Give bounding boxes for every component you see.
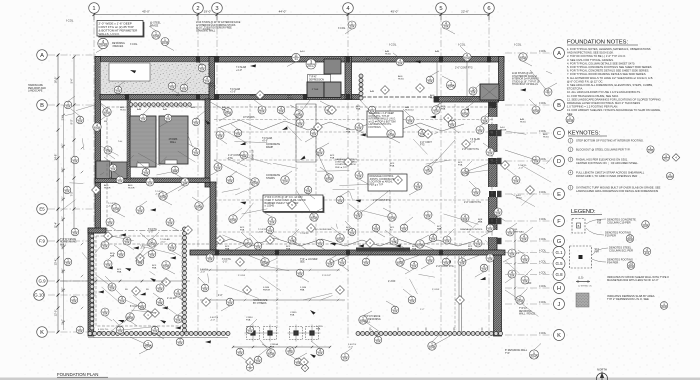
svg-text:204: 204 bbox=[65, 189, 70, 193]
svg-text:16'-0": 16'-0" bbox=[54, 77, 58, 84]
svg-text:2045: 2045 bbox=[667, 175, 673, 179]
svg-text:HOLD: HOLD bbox=[398, 79, 404, 81]
svg-text:204: 204 bbox=[350, 231, 355, 235]
svg-text:204: 204 bbox=[170, 85, 175, 89]
vertical column grid lines 1-6 bbox=[94, 15, 489, 340]
svg-text:FBA: FBA bbox=[117, 271, 122, 274]
svg-text:204: 204 bbox=[279, 109, 284, 113]
centerline COL labels right bbox=[539, 49, 547, 335]
stair treads west bbox=[131, 120, 155, 160]
svg-text:2045: 2045 bbox=[149, 243, 156, 247]
svg-text:A4B: A4B bbox=[520, 118, 525, 121]
svg-text:2045: 2045 bbox=[337, 238, 344, 242]
svg-text:ETC/ETCRA.: ETC/ETCRA. bbox=[567, 87, 583, 91]
svg-text:ℓ COL: ℓ COL bbox=[539, 270, 547, 274]
svg-text:G.8: G.8 bbox=[555, 272, 563, 277]
svg-text:HOLD14: HOLD14 bbox=[405, 110, 414, 112]
svg-text:-2'-0": -2'-0" bbox=[348, 347, 353, 349]
svg-text:204: 204 bbox=[150, 253, 155, 257]
svg-text:204: 204 bbox=[78, 329, 83, 333]
svg-text:+0'-0": +0'-0" bbox=[160, 242, 166, 244]
svg-text:8. ALL EXTERIOR WALLS TO HAVE: 8. ALL EXTERIOR WALLS TO HAVE 1/2" SHEAT… bbox=[567, 76, 653, 80]
left vertical dimension strings bbox=[57, 54, 76, 334]
svg-text:ℓ COL: ℓ COL bbox=[539, 101, 547, 105]
boxed note top-left perimeter footing bbox=[97, 21, 144, 38]
svg-text:2'-0" CONT FTG: 2'-0" CONT FTG bbox=[455, 67, 473, 70]
svg-text:204: 204 bbox=[431, 237, 436, 241]
svg-text:-1'-0": -1'-0" bbox=[518, 168, 523, 170]
svg-text:F: F bbox=[557, 219, 561, 225]
svg-text:C19: C19 bbox=[597, 220, 602, 222]
svg-text:4. FOR TYPICAL COLUMN DETAILS: 4. FOR TYPICAL COLUMN DETAILS SEE SHEET … bbox=[567, 61, 635, 65]
svg-text:45'-0": 45'-0" bbox=[142, 10, 150, 14]
svg-text:HOUR: HOUR bbox=[104, 188, 111, 190]
bubble leader lines bbox=[68, 26, 557, 361]
svg-text:FBA: FBA bbox=[225, 248, 230, 251]
interior wall horiz row B bbox=[100, 95, 362, 100]
svg-text:204: 204 bbox=[318, 242, 323, 246]
svg-text:204: 204 bbox=[268, 229, 273, 233]
svg-text:204: 204 bbox=[158, 287, 163, 291]
svg-text:FBA: FBA bbox=[441, 108, 446, 111]
svg-text:204: 204 bbox=[205, 79, 210, 83]
svg-text:204: 204 bbox=[110, 286, 115, 290]
svg-text:6: 6 bbox=[487, 6, 490, 12]
svg-text:AUS: AUS bbox=[210, 82, 215, 85]
svg-text:2046: 2046 bbox=[99, 44, 107, 48]
svg-text:TYP ▲ LOUVER: TYP ▲ LOUVER bbox=[300, 258, 318, 261]
svg-text:204: 204 bbox=[178, 341, 183, 345]
svg-text:2x10 STUDS @ 24": 2x10 STUDS @ 24" bbox=[512, 73, 533, 75]
svg-text:204: 204 bbox=[514, 179, 519, 183]
svg-text:NORTH: NORTH bbox=[597, 368, 607, 372]
svg-text:K: K bbox=[557, 333, 561, 339]
svg-text:204: 204 bbox=[125, 240, 130, 244]
svg-text:KEYNOTES:: KEYNOTES: bbox=[568, 131, 600, 137]
svg-text:2045: 2045 bbox=[533, 109, 540, 113]
svg-text:LANDSCAPED ARCH DRAWINGS FOR D: LANDSCAPED ARCH DRAWINGS FOR DETAIL AND … bbox=[576, 189, 658, 193]
svg-text:204: 204 bbox=[158, 301, 163, 305]
svg-text:NO RETAINING: NO RETAINING bbox=[60, 241, 77, 244]
svg-text:ℓ COL: ℓ COL bbox=[539, 248, 547, 252]
svg-text:F.9: F.9 bbox=[39, 239, 45, 244]
svg-text:B: B bbox=[578, 224, 580, 228]
svg-text:+1'-0": +1'-0" bbox=[470, 142, 476, 144]
svg-text:204: 204 bbox=[508, 231, 513, 235]
svg-text:-2'-0": -2'-0" bbox=[258, 232, 263, 234]
svg-text:19'-0": 19'-0" bbox=[204, 10, 212, 14]
grid bubbles 1-6 top row bbox=[89, 3, 495, 14]
svg-text:H: H bbox=[557, 286, 561, 292]
pier footing P2 bbox=[262, 325, 279, 342]
svg-text:TYP AT: TYP AT bbox=[519, 307, 527, 310]
svg-text:204: 204 bbox=[73, 231, 78, 235]
svg-text:HOLD: HOLD bbox=[120, 110, 126, 112]
svg-text:2: 2 bbox=[196, 6, 199, 12]
svg-text:FROM GRID 1 TO GRID 3 OVER OPE: FROM GRID 1 TO GRID 3 OVER OPENINGS PER bbox=[576, 174, 637, 178]
svg-text:E: E bbox=[557, 192, 561, 198]
zigzag leader chain above south wall bbox=[210, 238, 478, 247]
svg-text:5. FOR TYPICAL CONCRETE FOOTI: 5. FOR TYPICAL CONCRETE FOOTINGS SEE SHE… bbox=[567, 65, 652, 69]
svg-text:12'-0": 12'-0" bbox=[54, 310, 58, 317]
svg-text:204: 204 bbox=[228, 179, 233, 183]
svg-text:204: 204 bbox=[343, 356, 348, 360]
svg-text:204: 204 bbox=[166, 117, 171, 121]
svg-text:2045: 2045 bbox=[162, 41, 169, 45]
hardscape dimension lines bbox=[200, 62, 516, 301]
svg-text:204: 204 bbox=[445, 239, 450, 243]
svg-text:204: 204 bbox=[170, 246, 175, 250]
svg-text:204: 204 bbox=[645, 251, 650, 255]
svg-text:RAMP UP: RAMP UP bbox=[252, 149, 255, 160]
svg-text:204: 204 bbox=[66, 261, 71, 265]
svg-text:HOLD: HOLD bbox=[348, 98, 354, 100]
svg-text:2045: 2045 bbox=[262, 262, 269, 266]
svg-text:FOOTINGS: FOOTINGS bbox=[369, 127, 382, 129]
pier footing P3 bbox=[288, 325, 305, 342]
svg-text:204: 204 bbox=[474, 191, 479, 195]
svg-text:@ 6" OC AND F.N. @ 12" OC.: @ 6" OC AND F.N. @ 12" OC. bbox=[567, 79, 603, 83]
svg-text:204: 204 bbox=[444, 261, 449, 265]
svg-text:2'-3 DF: 2'-3 DF bbox=[432, 289, 440, 291]
svg-text:-2'-0": -2'-0" bbox=[200, 272, 205, 274]
svg-text:1'-2": 1'-2" bbox=[420, 309, 425, 311]
svg-text:45'-0": 45'-0" bbox=[391, 10, 399, 14]
svg-text:LANDSCAPE: LANDSCAPE bbox=[28, 90, 43, 93]
svg-text:204: 204 bbox=[176, 292, 181, 296]
svg-text:34: 34 bbox=[294, 57, 298, 61]
svg-text:2045: 2045 bbox=[648, 149, 654, 153]
svg-text:AT STAIRS: AT STAIRS bbox=[243, 116, 255, 119]
callout bubbles (circles) bbox=[64, 21, 552, 366]
svg-text:ℓ COL: ℓ COL bbox=[130, 42, 138, 46]
svg-text:DRAINAGE CONTROL: DRAINAGE CONTROL bbox=[460, 228, 484, 231]
svg-text:E5: E5 bbox=[39, 207, 45, 212]
svg-text:2' THK: 2' THK bbox=[312, 89, 319, 91]
svg-text:2045: 2045 bbox=[447, 85, 454, 89]
svg-text:2'-0" CONT FTG: 2'-0" CONT FTG bbox=[464, 202, 481, 204]
cont footing dashed outline main hall bbox=[107, 107, 492, 244]
svg-text:3. SEE CIVIL FOR TYPICAL GRAD: 3. SEE CIVIL FOR TYPICAL GRADES. bbox=[567, 58, 614, 62]
centerline COL labels top bbox=[66, 19, 522, 47]
svg-text:FBA: FBA bbox=[412, 248, 417, 251]
svg-text:FOUNDATION NOTES:: FOUNDATION NOTES: bbox=[567, 40, 628, 46]
svg-text:204: 204 bbox=[523, 279, 528, 283]
svg-text:7.0 SLAB: 7.0 SLAB bbox=[470, 138, 480, 141]
svg-text:204: 204 bbox=[523, 258, 528, 262]
south wall main mass row G1 bbox=[190, 250, 505, 255]
bottom scan strip bbox=[0, 378, 700, 380]
svg-text:204: 204 bbox=[357, 126, 362, 130]
svg-text:WALL: WALL bbox=[60, 243, 67, 246]
svg-text:204: 204 bbox=[72, 299, 77, 303]
svg-text:204: 204 bbox=[141, 117, 146, 121]
dark depression block east bbox=[324, 82, 341, 98]
wing top boundary dash-dot bbox=[106, 230, 190, 232]
svg-text:204: 204 bbox=[496, 211, 501, 215]
grid bubbles left column bbox=[34, 50, 48, 338]
svg-text:204: 204 bbox=[433, 110, 438, 114]
svg-text:FBA: FBA bbox=[468, 248, 473, 251]
svg-text:FSA: FSA bbox=[246, 319, 251, 322]
svg-text:1: 1 bbox=[92, 6, 95, 12]
svg-text:ℓ COL: ℓ COL bbox=[539, 331, 547, 335]
wing west wall bead overlay bbox=[90, 234, 94, 330]
svg-text:T.O.FTG: T.O.FTG bbox=[148, 229, 157, 231]
svg-text:2. TOP OF FOOTING TO BE (-) 1: 2. TOP OF FOOTING TO BE (-) 1'-0" TYP U.… bbox=[567, 54, 626, 58]
svg-text:FB/UM: FB/UM bbox=[263, 290, 270, 292]
svg-text:A4B: A4B bbox=[435, 50, 440, 53]
interior wall vert x210 lower bbox=[210, 182, 216, 250]
svg-text:2045: 2045 bbox=[94, 127, 101, 131]
svg-text:T.O.SLAB: T.O.SLAB bbox=[230, 88, 241, 91]
elevator inner marks bbox=[482, 86, 497, 98]
svg-text:2'-0" CONT FTG: 2'-0" CONT FTG bbox=[462, 149, 479, 151]
svg-text:TYP AT: TYP AT bbox=[309, 76, 317, 79]
stair shaft room west bbox=[130, 116, 156, 167]
exterior wall right upper bbox=[499, 57, 505, 101]
svg-text:204: 204 bbox=[482, 267, 487, 271]
svg-text:-1'-0": -1'-0" bbox=[222, 262, 228, 264]
svg-text:ℓ COL: ℓ COL bbox=[539, 49, 547, 53]
svg-text:INTERIOR 2x4 FURRING: INTERIOR 2x4 FURRING bbox=[512, 79, 539, 81]
svg-text:FSA: FSA bbox=[290, 314, 295, 317]
svg-text:TYP: TYP bbox=[505, 353, 510, 355]
svg-text:3: 3 bbox=[215, 6, 218, 12]
svg-text:STEP BOTTOM OF FOOTING AT INTE: STEP BOTTOM OF FOOTING AT INTERIOR FOOTI… bbox=[576, 139, 644, 143]
interior wall vert grid4 bbox=[345, 57, 352, 100]
svg-text:/ BRACES: / BRACES bbox=[112, 45, 124, 48]
svg-text:SIM: SIM bbox=[98, 332, 102, 334]
keynotes panel bbox=[568, 131, 680, 194]
svg-text:204: 204 bbox=[510, 273, 515, 277]
landing rect west bbox=[137, 163, 149, 167]
stipple planting band upper-left bbox=[101, 62, 211, 101]
svg-text:204: 204 bbox=[108, 221, 113, 225]
svg-text:2'-11 1/2": 2'-11 1/2" bbox=[167, 298, 177, 300]
svg-text:8' 9 1/2": 8' 9 1/2" bbox=[130, 306, 138, 308]
svg-text:B: B bbox=[40, 103, 44, 109]
svg-text:2045: 2045 bbox=[628, 265, 635, 269]
svg-text:SEE: SEE bbox=[300, 262, 305, 264]
svg-text:FOUNDATION PLAN: FOUNDATION PLAN bbox=[57, 372, 98, 377]
retaining wall beaded east bbox=[356, 332, 503, 336]
svg-text:G: G bbox=[557, 239, 562, 245]
svg-text:A4B: A4B bbox=[370, 90, 375, 93]
svg-text:204: 204 bbox=[248, 329, 253, 333]
retaining wall tick marks east bbox=[370, 328, 482, 331]
elevator shaft dark square bbox=[480, 84, 499, 100]
beaded furring wall below row B bbox=[129, 103, 191, 107]
svg-text:2045: 2045 bbox=[567, 119, 574, 123]
svg-text:2045: 2045 bbox=[627, 238, 634, 242]
svg-text:44'-0": 44'-0" bbox=[279, 10, 287, 14]
svg-text:204: 204 bbox=[194, 121, 199, 125]
svg-text:204: 204 bbox=[522, 237, 527, 241]
retaining wall beaded west bbox=[88, 332, 230, 336]
zigzag leader chain below row B bbox=[218, 120, 464, 131]
bubble at grid4 head bbox=[306, 59, 316, 69]
svg-text:2'-11 1/2": 2'-11 1/2" bbox=[322, 275, 331, 277]
svg-text:HOUR: HOUR bbox=[128, 188, 135, 190]
svg-text:204: 204 bbox=[298, 272, 303, 276]
svg-text:2H RMS: 2H RMS bbox=[169, 139, 178, 141]
stair treads east bbox=[160, 120, 187, 156]
cont footing dashed outline wing bbox=[96, 236, 182, 326]
svg-text:204: 204 bbox=[182, 87, 187, 91]
svg-text:204: 204 bbox=[203, 287, 208, 291]
svg-text:● 1/2045: ● 1/2045 bbox=[265, 205, 275, 208]
svg-text:204: 204 bbox=[116, 89, 121, 93]
svg-text:7. FOR TYPICAL WOOD FRAMING D: 7. FOR TYPICAL WOOD FRAMING DETAILS SEE … bbox=[567, 72, 647, 76]
svg-text:AUS: AUS bbox=[543, 133, 548, 136]
svg-text:2045: 2045 bbox=[104, 112, 111, 116]
svg-text:HDUR: HDUR bbox=[500, 130, 507, 132]
typ-at-depression boxed note bbox=[308, 75, 331, 83]
svg-text:STAIRS: STAIRS bbox=[266, 177, 275, 180]
svg-text:AT EXTERIOR FACE w/: AT EXTERIOR FACE w/ bbox=[512, 75, 537, 78]
svg-text:2045: 2045 bbox=[268, 353, 275, 357]
small gray room a bbox=[96, 161, 110, 179]
svg-text:2045: 2045 bbox=[388, 134, 395, 138]
legend panel bbox=[570, 209, 670, 309]
double stud line below south wall bbox=[459, 256, 462, 332]
svg-text:204: 204 bbox=[534, 159, 539, 163]
svg-text:204: 204 bbox=[236, 132, 241, 136]
interior wall horiz row B right segment bbox=[434, 97, 499, 103]
exterior wall right door gaps bbox=[488, 117, 499, 237]
svg-text:ℓ COL: ℓ COL bbox=[539, 259, 547, 263]
pier footing P4 bbox=[304, 325, 321, 342]
svg-text:G.1: G.1 bbox=[555, 250, 563, 255]
svg-text:204: 204 bbox=[426, 214, 431, 218]
svg-text:13. FOR LIBRARY SHELVES / STAC: 13. FOR LIBRARY SHELVES / STACKS ANCHORA… bbox=[567, 108, 661, 112]
foundation notes panel bbox=[566, 40, 661, 124]
svg-text:2'-3 DF: 2'-3 DF bbox=[238, 275, 246, 277]
svg-text:T.O.FTG: T.O.FTG bbox=[300, 233, 309, 235]
svg-text:w/ (2) #4 TOP & BOTTOM: w/ (2) #4 TOP & BOTTOM bbox=[369, 121, 396, 123]
svg-text:204: 204 bbox=[144, 171, 149, 175]
svg-text:ℓ COL: ℓ COL bbox=[66, 19, 74, 23]
svg-text:K: K bbox=[40, 330, 44, 336]
svg-text:13'-4": 13'-4" bbox=[54, 259, 58, 266]
svg-text:STANDING WALL: STANDING WALL bbox=[196, 29, 216, 32]
svg-text:204: 204 bbox=[416, 185, 421, 189]
svg-text:2'-0" CONT FTG: 2'-0" CONT FTG bbox=[373, 199, 391, 202]
svg-text:204: 204 bbox=[153, 329, 158, 333]
svg-text:T=U: T=U bbox=[118, 141, 123, 143]
svg-text:204: 204 bbox=[270, 220, 275, 224]
row G9 dimension ticks across wing bbox=[60, 280, 190, 283]
left margin bubbles bbox=[63, 156, 84, 334]
svg-text:9. SEE ARCH FOR ALL DIMENSION: 9. SEE ARCH FOR ALL DIMENSIONS, ELEVATIO… bbox=[567, 83, 653, 87]
svg-text:PER▲● TYP: PER▲● TYP bbox=[370, 183, 384, 186]
svg-text:-2'-0": -2'-0" bbox=[210, 320, 215, 322]
svg-text:HOLD: HOLD bbox=[287, 98, 293, 100]
svg-text:WALLS, U.N.O.: WALLS, U.N.O. bbox=[99, 32, 120, 36]
svg-text:MAGNETER 2042 WITH LENGTH OF 1: MAGNETER 2042 WITH LENGTH OF 12'-0" bbox=[607, 278, 659, 282]
interior dashed footing lines bbox=[214, 104, 494, 330]
svg-text:12. SEE LANDSCAPE DRAWINGS FOR: 12. SEE LANDSCAPE DRAWINGS FOR LOCATIONS… bbox=[567, 97, 661, 101]
svg-text:ℓ COL: ℓ COL bbox=[539, 300, 547, 304]
svg-text:2045: 2045 bbox=[517, 300, 524, 304]
svg-text:204: 204 bbox=[120, 299, 125, 303]
svg-text:204: 204 bbox=[340, 261, 345, 265]
svg-text:204: 204 bbox=[103, 244, 108, 248]
svg-text:204: 204 bbox=[402, 227, 407, 231]
svg-text:JOINTS. COORDINATE: JOINTS. COORDINATE bbox=[370, 178, 395, 181]
concrete stairs text bbox=[266, 174, 280, 180]
svg-text:F19 PER: F19 PER bbox=[605, 234, 616, 238]
north arrow bbox=[597, 368, 608, 380]
svg-text:204: 204 bbox=[216, 166, 221, 170]
svg-text:204: 204 bbox=[176, 318, 181, 322]
svg-text:A: A bbox=[40, 53, 44, 59]
bottom dimension string bbox=[232, 346, 331, 348]
interior wall vert x205 mid bbox=[205, 99, 210, 187]
svg-text:DRAINAGE LAYER OVER FOOTINGS.: DRAINAGE LAYER OVER FOOTINGS. MAX 2" THI… bbox=[567, 101, 640, 105]
concrete ramp outline bbox=[252, 104, 317, 162]
svg-text:w/ SHTML OC: w/ SHTML OC bbox=[578, 286, 592, 288]
svg-text:2045: 2045 bbox=[462, 112, 469, 116]
svg-text:G.9: G.9 bbox=[38, 279, 46, 284]
svg-text:204: 204 bbox=[374, 227, 379, 231]
svg-text:A4B: A4B bbox=[385, 50, 390, 53]
svg-text:204: 204 bbox=[238, 351, 243, 355]
svg-text:204: 204 bbox=[282, 180, 287, 184]
svg-text:AUS: AUS bbox=[287, 94, 292, 97]
svg-text:2045: 2045 bbox=[252, 182, 259, 186]
column block at grid4 top bbox=[324, 59, 341, 74]
svg-text:COLUMN C19 PER: COLUMN C19 PER bbox=[607, 221, 631, 225]
svg-text:204: 204 bbox=[208, 257, 213, 261]
svg-text:10. ALL HD16 HOLDOWN TO USE 1: 10. ALL HD16 HOLDOWN TO USE 1 1/4"ø ANCH… bbox=[567, 90, 641, 94]
svg-text:A4B: A4B bbox=[405, 106, 410, 109]
svg-text:LEGEND:: LEGEND: bbox=[571, 209, 596, 215]
left margin secondary dim string bbox=[62, 105, 83, 330]
svg-text:ℓ COL: ℓ COL bbox=[539, 237, 547, 241]
svg-text:A4B: A4B bbox=[191, 106, 196, 109]
svg-text:204: 204 bbox=[66, 104, 71, 108]
svg-text:22'-6": 22'-6" bbox=[461, 10, 469, 14]
concrete ramp text bbox=[266, 143, 280, 149]
column blobs at wall intersections bbox=[125, 56, 496, 256]
beaded wall segment x361 bbox=[359, 74, 363, 100]
grid bubbles right column bbox=[553, 48, 565, 341]
svg-text:204: 204 bbox=[106, 263, 111, 267]
svg-text:204: 204 bbox=[312, 132, 317, 136]
svg-text:204: 204 bbox=[168, 221, 173, 225]
svg-text:DRAINAGE CONTROL: DRAINAGE CONTROL bbox=[370, 175, 395, 178]
svg-text:ℓ COL: ℓ COL bbox=[514, 43, 522, 47]
svg-text:204: 204 bbox=[478, 129, 483, 133]
svg-text:A4B: A4B bbox=[163, 108, 168, 111]
boxed note drainage joints bbox=[368, 174, 407, 191]
exterior wall top bbox=[95, 57, 504, 63]
svg-text:204: 204 bbox=[488, 151, 493, 155]
svg-text:204: 204 bbox=[298, 122, 303, 126]
svg-text:ℓ COL: ℓ COL bbox=[539, 190, 547, 194]
interior wall vert x127 bbox=[127, 99, 131, 179]
exterior wall right lower bbox=[494, 250, 502, 336]
svg-text:204: 204 bbox=[488, 257, 493, 261]
svg-text:FBA: FBA bbox=[270, 346, 275, 349]
svg-text:FBA: FBA bbox=[356, 108, 361, 111]
svg-text:SYNTHETIC TURF MOUND BUILT UP: SYNTHETIC TURF MOUND BUILT UP OVER SLAB … bbox=[576, 186, 661, 190]
boxed note interior footing bbox=[367, 111, 403, 137]
horizontal grid leaders right bbox=[505, 53, 552, 335]
svg-text:1. FOR TYPICAL NOTES, LEGENDS: 1. FOR TYPICAL NOTES, LEGENDS, MATERIALS… bbox=[567, 47, 651, 51]
